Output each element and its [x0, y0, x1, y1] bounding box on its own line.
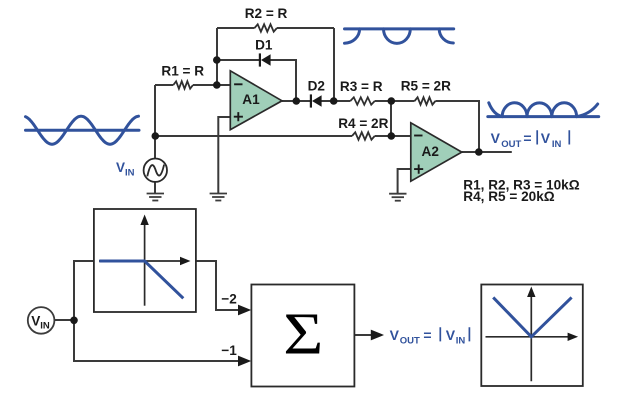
resistor R1: [173, 81, 193, 88]
label Vout equation (bottom): [390, 327, 470, 347]
svg-text:R3 = R: R3 = R: [340, 79, 383, 94]
arrowhead sigma output: [371, 330, 384, 341]
wire: bottom rail: [155, 135, 391, 137]
svg-text:R5 = 2R: R5 = 2R: [401, 79, 451, 94]
svg-text:A1: A1: [242, 92, 260, 107]
resistor R2: [255, 24, 277, 31]
wire: A2 minus input: [391, 135, 411, 137]
svg-text:D1: D1: [255, 37, 273, 52]
resistor R5: [415, 97, 436, 104]
ground (A2 plus input): [389, 194, 406, 201]
source Vin circle (block diagram): [28, 307, 55, 334]
wire: source lower stem: [154, 182, 156, 193]
input sine waveform: [26, 116, 140, 144]
resistor R3: [350, 97, 374, 104]
op-amp A2: [411, 123, 462, 181]
wire: R5 leads and right vertical: [391, 101, 479, 152]
absolute value curve: [493, 297, 571, 336]
axis horizontal: [99, 260, 183, 262]
wire: R2 top rail: [217, 27, 334, 29]
full-wave rectified output waveform: [488, 103, 599, 117]
node: A1 output junction: [293, 97, 301, 105]
svg-text:R1 = R: R1 = R: [161, 64, 204, 79]
diode D2: [311, 94, 322, 107]
svg-text:R2 = R: R2 = R: [245, 6, 288, 21]
label Vout equation (top): [491, 130, 570, 150]
svg-text:D2: D2: [308, 79, 326, 94]
wire: R1 leads: [155, 84, 217, 86]
wire: A2 output: [462, 151, 512, 153]
wire: inverting node vertical: [216, 28, 218, 85]
transfer function box (inverting half-wave): [94, 209, 196, 312]
wire: A1 plus input with ground stem: [218, 117, 230, 193]
node: D1 branch junction: [213, 56, 221, 64]
wire: sigma output: [355, 334, 375, 336]
half-wave rectified waveform (top): [345, 29, 454, 43]
svg-text:R4 = 2R: R4 = 2R: [338, 116, 388, 131]
op-amp A1: [230, 71, 282, 130]
node: D2-R3 junction: [330, 97, 338, 105]
wire: A1 minus input: [217, 84, 230, 86]
diode D1: [260, 53, 271, 66]
arrowhead -2 into sigma: [238, 305, 251, 316]
wire: R3 leads: [334, 100, 391, 102]
wire: summing vertical: [390, 101, 392, 136]
arrowhead -1 into sigma: [238, 356, 251, 367]
node: Vin branch junction: [70, 317, 78, 325]
svg-text:A2: A2: [422, 144, 440, 159]
resistor R4: [352, 132, 375, 139]
svg-text:−2: −2: [221, 292, 237, 307]
wire: R2 right vertical: [333, 28, 335, 101]
svg-text:−1: −1: [221, 343, 237, 358]
wire: -2 path: [196, 261, 243, 310]
svg-text:Σ: Σ: [283, 301, 323, 366]
ground (source): [147, 194, 164, 201]
axis vertical: [144, 222, 146, 306]
node: R4 summing junction: [388, 132, 396, 140]
wire: Vin vertical riser: [154, 85, 156, 159]
transfer curve: [99, 261, 183, 298]
wire: A2 plus input with ground stem: [398, 169, 411, 194]
wire: A1 output to D2: [282, 100, 334, 102]
node: Vin-bottom rail junction: [152, 132, 160, 140]
output graph box (absolute value): [481, 285, 583, 387]
axis horizontal: [486, 336, 571, 338]
wire: Vin to node: [54, 319, 74, 321]
axis vertical: [530, 294, 532, 381]
wire: node riser to transfer box: [74, 261, 94, 320]
svg-text:R4, R5 = 20kΩ: R4, R5 = 20kΩ: [463, 189, 554, 204]
node: inverting input junction: [213, 81, 221, 89]
summation block sigma: [251, 285, 354, 387]
wire: -1 path: [74, 320, 243, 361]
source Vin (sine generator): [144, 159, 167, 182]
node: A2 output junction: [475, 148, 483, 156]
node: R3-R5 summing junction: [388, 97, 396, 105]
ground (A1 plus input): [210, 194, 227, 201]
wire: D1 branch: [217, 60, 296, 101]
